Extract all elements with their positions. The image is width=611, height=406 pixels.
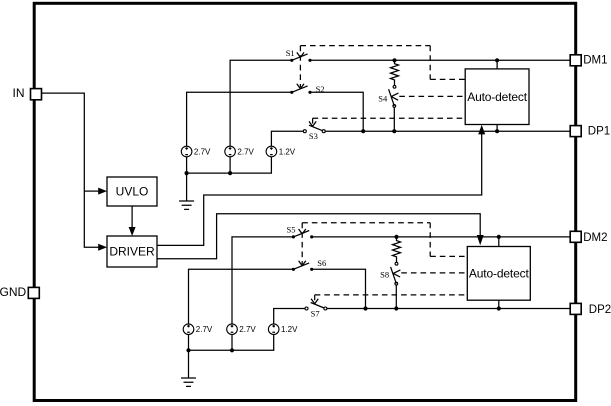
svg-text:IN: IN [13, 86, 25, 100]
svg-text:S1: S1 [286, 48, 295, 58]
wire sources to ground bus 2 [189, 335, 274, 351]
dashed control net S5 top [302, 222, 430, 224]
svg-text:UVLO: UVLO [116, 185, 149, 199]
svg-text:2.7V: 2.7V [194, 147, 211, 156]
svg-text:S7: S7 [311, 309, 320, 319]
svg-text:S5: S5 [287, 224, 296, 234]
junction V5 bus [230, 348, 234, 352]
svg-text:S6: S6 [317, 258, 326, 268]
svg-text:DRIVER: DRIVER [109, 245, 155, 259]
net DP2 [325, 308, 570, 310]
arrow into UVLO [98, 188, 107, 195]
junction DM2/R2 [394, 235, 398, 239]
junction DP2/S8 [394, 306, 398, 310]
junction DP1/S4 [392, 129, 396, 133]
source V1 2.7V [181, 146, 211, 157]
source V3 1.2V [266, 146, 296, 157]
wire S6 right to DP2 [312, 269, 366, 308]
wire tee to UVLO input [84, 190, 99, 192]
switch S6 [292, 258, 326, 271]
resistor R1 [391, 60, 399, 85]
wire S8 to DP2 [395, 285, 397, 309]
wire U1 bottom stub [496, 125, 498, 132]
svg-text:DP2: DP2 [589, 304, 611, 316]
switch S7 [305, 303, 327, 319]
svg-text:Auto-detect: Auto-detect [469, 266, 530, 280]
pin GND [0, 285, 39, 299]
arrow into DRIVER top [129, 227, 136, 236]
block U1 Auto-detect [465, 69, 529, 125]
block U2 Auto-detect [467, 247, 530, 301]
dashed control to U1 in1 [430, 46, 465, 80]
wire U2 top stub [498, 237, 500, 247]
junction V4 bus [186, 348, 190, 352]
dashed control S4 to U1 in2 [399, 95, 465, 97]
control line S1/S2 [297, 46, 304, 89]
resistor R2 [393, 237, 401, 262]
wire UVLO to DRIVER [131, 206, 133, 228]
wire U1 top stub [496, 60, 498, 69]
arrow into Auto-detect U2 top [477, 235, 484, 245]
junction DP1/U1 [495, 129, 499, 133]
junction DM1/U1 [495, 58, 499, 62]
switch S4 [378, 85, 398, 107]
source V4 2.7V [183, 324, 213, 335]
source V6 1.2V [268, 324, 298, 335]
pin DP1 [570, 125, 610, 137]
junction V1 bus [185, 171, 189, 175]
control line S5/S6 [299, 223, 306, 266]
source V2 2.7V [225, 146, 255, 157]
svg-text:1.2V: 1.2V [279, 147, 296, 156]
switch S2 [290, 84, 324, 94]
svg-text:DM1: DM1 [583, 55, 607, 67]
wire V2 to S1 left [230, 60, 292, 146]
wire DRIVER out2 to Auto-detect U2 [157, 214, 480, 259]
svg-text:S8: S8 [380, 270, 389, 280]
switch S3 [303, 125, 325, 141]
block UVLO [107, 177, 157, 206]
net DM1 [310, 59, 570, 61]
wire S2 right to DP1 [310, 92, 363, 131]
wire V3 to S3 left [271, 131, 304, 146]
pin DM1 [570, 55, 607, 67]
block DRIVER [107, 236, 157, 267]
pin DP2 [570, 303, 611, 316]
net DP1 [324, 130, 571, 132]
svg-text:S3: S3 [309, 131, 318, 141]
dashed control to U2 in1 [430, 223, 467, 257]
wire V4 to S6 left [189, 269, 294, 324]
svg-text:DP1: DP1 [588, 125, 610, 137]
control line S3 [309, 118, 316, 126]
junction DP2/S6 [363, 306, 367, 310]
svg-text:2.7V: 2.7V [196, 325, 213, 334]
wire DRIVER out1 to Auto-detect U1 [157, 134, 482, 246]
pin DM2 [570, 231, 607, 244]
wire V6 to S7 left [274, 309, 307, 324]
wire V5 to S5 left [232, 237, 293, 324]
arrow into Auto-detect U1 bottom [478, 125, 485, 135]
ground 1 [179, 173, 194, 209]
svg-text:2.7V: 2.7V [237, 147, 254, 156]
wire IN to UVLO/DRIVER feed [42, 93, 99, 247]
svg-text:DM2: DM2 [583, 232, 607, 244]
junction DP1/S2 [361, 129, 365, 133]
dashed control S7 to U2 in3 [315, 294, 468, 296]
svg-text:Auto-detect: Auto-detect [467, 90, 528, 104]
svg-text:2.7V: 2.7V [239, 325, 256, 334]
switch S8 [380, 262, 400, 285]
junction V2 bus [228, 171, 232, 175]
junction DP2/U2 [497, 306, 501, 310]
pin IN [13, 86, 42, 100]
wire S4 to DP1 [393, 107, 395, 131]
wire sources to ground bus 1 [187, 157, 272, 173]
switch S5 [287, 224, 314, 238]
svg-text:S4: S4 [378, 93, 388, 103]
dashed control S3 to U1 in3 [313, 117, 466, 119]
source V5 2.7V [227, 324, 257, 335]
junction DM1/R1 [392, 58, 396, 62]
switch S1 [286, 48, 312, 62]
wire U2 bottom stub [498, 300, 500, 308]
svg-text:GND: GND [0, 285, 27, 299]
dashed control net S1 top [300, 45, 430, 47]
arrow into DRIVER [98, 244, 107, 251]
ground 2 [181, 350, 196, 386]
control line S7 [311, 295, 318, 304]
net DM2 [312, 236, 571, 238]
svg-text:1.2V: 1.2V [281, 325, 298, 334]
svg-text:S2: S2 [316, 84, 325, 94]
dashed control S8 to U2 in2 [401, 272, 467, 274]
wire V1 to S2 left [187, 92, 292, 146]
junction DM2/U2 [497, 235, 501, 239]
